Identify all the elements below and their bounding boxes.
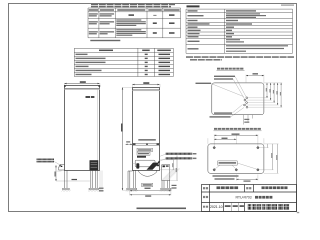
front left small dim — [55, 165, 56, 181]
top-view annot 1 — [214, 76, 235, 77]
notes r2c2 — [100, 21, 115, 22]
notes r1c4 — — [153, 14, 156, 17]
rear cover hatch — [162, 169, 180, 180]
notes r3c5 — [169, 32, 175, 34]
spec v4 — [226, 23, 252, 24]
anchor bottom dim line — [236, 179, 258, 180]
title scale cell dividers — [232, 203, 239, 212]
front width dim 350 — [65, 83, 100, 84]
front cap seam — [64, 87, 100, 89]
side internal valve blob — [136, 163, 139, 168]
side internal component box — [135, 160, 155, 167]
top-view title underline — [217, 70, 245, 72]
side height dim ext top — [123, 86, 133, 88]
spec title ●仕様表 — [187, 5, 200, 7]
conn row1 — [76, 54, 88, 55]
side width dim 493 — [133, 84, 160, 85]
front view body — [65, 86, 100, 171]
side ground hatch L — [126, 190, 138, 192]
side rear pipe cover — [162, 165, 170, 181]
spec v1 — [226, 10, 256, 11]
spec row2 label — [188, 15, 204, 16]
side shelf line — [132, 162, 160, 164]
notes r3c2 — [100, 31, 115, 32]
notes r2c1 — [89, 21, 98, 22]
side bottom tray — [139, 170, 157, 176]
anchor leaders — [215, 163, 258, 169]
front valve box (dark) — [90, 161, 98, 171]
spec v3 — [226, 20, 238, 21]
anchor bottom dim — [236, 175, 258, 181]
title タンクユニット — [262, 186, 288, 189]
side drain label box — [142, 183, 153, 187]
spec v2 — [226, 13, 260, 14]
front legs — [65, 170, 98, 188]
anchor title アンカーボルトの固定位置 — [214, 128, 261, 130]
spec v6 — [226, 30, 232, 31]
front dim ext L — [63, 83, 65, 85]
bottom center note — [137, 208, 187, 210]
anchor body outline — [208, 144, 264, 173]
top-view bottom dims — [244, 115, 253, 125]
spec v8 — [226, 36, 232, 37]
side dim ext — [131, 84, 133, 87]
front left annot l1 — [37, 159, 54, 161]
side dark label — [137, 156, 146, 158]
title 尺度 — [225, 205, 231, 207]
svg-text:2021.10: 2021.10 — [210, 205, 223, 209]
top-view pipe connection marks — [244, 97, 248, 108]
side view body — [133, 88, 160, 171]
spec row3 label — [188, 20, 198, 21]
notes r2c4 — [153, 22, 157, 24]
spec row5 label — [188, 27, 198, 28]
side front leg — [128, 170, 135, 188]
notes r3c4 — [153, 32, 157, 34]
side annot leaders — [160, 154, 165, 161]
ref line label — [72, 179, 78, 180]
side ground hatch R — [160, 190, 172, 192]
top-view bottom annot 1 — [214, 112, 232, 113]
side rear legs — [162, 181, 169, 189]
side height dim ext bottom — [123, 189, 130, 191]
top-view top dim 35 — [246, 75, 264, 76]
side bottom dims — [130, 190, 171, 196]
spec row7 label — [188, 33, 200, 34]
anchor bottom annot l2 — [215, 178, 235, 179]
spec row8 label — [188, 36, 199, 37]
top-view title 上からの配置図 — [217, 68, 243, 70]
ground hatch L — [62, 190, 71, 192]
notes hdr c1 — [89, 9, 99, 10]
side label box 1 — [137, 148, 153, 152]
top-view annot 3 — [196, 83, 212, 84]
top-view leader lines — [211, 77, 246, 100]
side drain pipe dark diagonal — [147, 161, 161, 170]
conn row2 — [76, 58, 106, 59]
page number bottom right — [297, 212, 299, 213]
notes r1c3 不要 — [129, 14, 135, 16]
ground hatch R — [88, 190, 100, 192]
front left annot leader — [54, 162, 60, 166]
page border frame — [9, 4, 297, 212]
side anchor bracket band — [132, 143, 160, 145]
title label 名称 — [203, 187, 208, 189]
top note line 1 — [91, 4, 98, 5]
conn row5 — [76, 70, 102, 71]
side cap band — [132, 90, 160, 91]
top-view bottom annot 2 — [210, 116, 231, 117]
spec v7 — [226, 33, 234, 34]
conn row4 — [76, 66, 89, 67]
spec v5 — [226, 27, 234, 28]
spec table grid — [186, 9, 293, 53]
side bottom dim 2 — [130, 194, 171, 195]
top-view bottom leaders — [231, 105, 244, 117]
anchor center label box — [218, 161, 238, 165]
anchor bottom annot l1 — [213, 175, 239, 176]
side label box 2 — [137, 152, 150, 155]
side height dim 1273 — [122, 88, 123, 191]
anchor top dim 2 — [214, 139, 236, 140]
notes r2c5 — [169, 22, 175, 24]
top-view right extension lines — [246, 83, 283, 107]
spec row1 label — [188, 10, 198, 11]
anchor right dims — [268, 144, 278, 173]
spec row10 label — [188, 48, 199, 49]
spec v9 — [226, 39, 240, 40]
side cap seam — [132, 89, 160, 91]
front cap corner L — [64, 85, 66, 87]
side small dark mark right — [157, 164, 159, 166]
notes r1c5 必要 — [169, 14, 175, 16]
top-view right dimension lines — [266, 83, 281, 107]
title company リンナイ株式会社 — [248, 204, 289, 209]
front feet — [63, 188, 70, 189]
notes r1c2 — [100, 13, 115, 14]
note below spec l2 — [190, 59, 197, 60]
page ref top right — [281, 5, 294, 6]
note below spec l1 — [186, 56, 193, 58]
conn row6 — [76, 74, 92, 75]
notes r1c1 — [89, 13, 98, 14]
front left bracket — [59, 165, 65, 171]
side bottom dim 1 — [130, 190, 171, 191]
front model sticker — [86, 96, 91, 98]
top note line 2 — [91, 6, 98, 7]
conn row3 — [76, 62, 106, 63]
notes r2c3 — [116, 19, 141, 20]
title label 品名 — [246, 187, 251, 189]
anchor title underline — [214, 130, 262, 132]
svg-text:RTU-R703: RTU-R703 — [236, 196, 252, 200]
title block grid — [202, 185, 297, 212]
title label 作成 — [203, 206, 208, 208]
title label 型式 — [203, 196, 208, 198]
anchor top extensions — [208, 134, 264, 147]
notes table grid — [88, 8, 181, 38]
conn hdr c1 — [99, 50, 113, 52]
top-view body outline — [212, 83, 264, 115]
side right annot 1 — [166, 153, 193, 155]
anchor bolt holes — [213, 146, 216, 149]
front ground ref line — [56, 180, 90, 182]
spec v10 — [226, 45, 288, 46]
connections table grid — [74, 48, 173, 76]
front right panel seam — [97, 90, 99, 170]
spec row9 label — [188, 41, 200, 42]
spec row6 label — [188, 30, 201, 31]
footnote below notes table — [90, 40, 120, 41]
side right dims — [174, 156, 178, 181]
front right bottom dim — [100, 171, 102, 193]
side anchor annot — [138, 139, 156, 141]
anchor top dim 1 — [214, 135, 258, 136]
spec row4 label — [188, 23, 210, 24]
notes r3c1 — [89, 31, 98, 32]
side bracket dim — [126, 144, 133, 145]
front cap band — [64, 88, 100, 89]
front bracket hatch — [57, 170, 62, 172]
notes r3c3 — [116, 29, 141, 30]
side right annot 2 — [166, 157, 193, 159]
top-view annot 2 — [214, 78, 233, 79]
title 外形寸法図 — [217, 186, 239, 189]
top-view right dim labels — [266, 88, 267, 92]
